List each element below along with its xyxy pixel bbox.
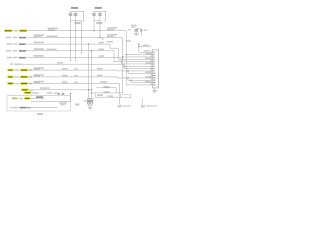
net label row6 <box>10 63 14 64</box>
connector J1 pins <box>150 51 155 86</box>
net name text row6 <box>57 62 63 64</box>
text sub2 <box>143 45 149 47</box>
net label above sheet <box>24 92 32 94</box>
wire bottom rail group2 <box>94 20 100 22</box>
capacitor C5 designator text <box>131 25 137 27</box>
capacitor C5 value text <box>128 29 130 31</box>
wire row10 <box>34 89 92 91</box>
wire vertical net B2 to row2 <box>99 21 101 38</box>
capacitor C1 <box>70 12 72 14</box>
sheet symbol box <box>7 95 70 111</box>
bracket net tie group2 <box>104 12 106 22</box>
wire vertical net B1 to row1 <box>93 21 95 31</box>
wire vertical net C1 row3 to R1 <box>88 44 90 98</box>
capacitor group U note label <box>71 7 78 9</box>
wire sheet row3 <box>31 107 58 109</box>
pin1 net text <box>144 50 150 51</box>
net name text row8 <box>34 74 45 76</box>
net text jog3 <box>108 95 114 97</box>
net name text row4 <box>34 48 45 50</box>
wire row5 <box>26 58 152 64</box>
component pin text <box>97 94 103 96</box>
wire row9 <box>29 84 120 105</box>
net name text row1 <box>48 28 59 30</box>
wire row2 <box>27 38 123 93</box>
net text jog2 <box>104 91 110 93</box>
resistor R1 <box>87 99 90 105</box>
capacitor C4 <box>99 12 101 14</box>
wire branch pin10 <box>127 71 129 73</box>
resistor designator text <box>84 100 86 102</box>
wire branch pin8 <box>123 66 125 68</box>
wire vertical net A2 <box>75 21 77 61</box>
wire jog net2 <box>92 92 123 94</box>
net flag sub2 <box>149 45 151 46</box>
net name text row7 <box>34 67 45 69</box>
sheet net label 1 yellow <box>12 97 19 99</box>
net label row7 yellow <box>7 69 13 71</box>
net name text row10 <box>40 87 50 89</box>
wire stub bottom right annotation <box>142 99 144 105</box>
net label row2 <box>6 37 12 39</box>
text below sheet <box>37 113 43 115</box>
ground under C5 <box>134 32 139 34</box>
wire vertical net C2 row4 to R2 <box>91 51 93 99</box>
capacitor C5 <box>135 28 137 31</box>
wire vertical net A1 <box>70 21 72 61</box>
white background <box>0 0 180 118</box>
wire branch pin14 <box>130 80 132 82</box>
wire row1 branch pin2 <box>126 54 152 56</box>
text bottom left annotation <box>123 105 132 107</box>
net name text row5 <box>34 55 45 57</box>
ground under resistors <box>88 107 92 109</box>
resistor R2 <box>90 99 93 105</box>
net text jog1 <box>104 86 110 88</box>
net label row1 yellow <box>4 30 13 32</box>
net label row5 <box>7 57 12 59</box>
net name text row3 <box>34 42 45 44</box>
value text group1 <box>74 22 80 24</box>
wire vertical net A3 <box>80 21 82 53</box>
wire component right pin <box>94 93 96 97</box>
net label row8 yellow <box>7 76 13 78</box>
wire top rail group2 <box>93 11 106 13</box>
net label row4 <box>6 50 12 52</box>
value text group2 <box>96 22 102 24</box>
net label row10 yellow <box>21 89 29 91</box>
net name text row9 <box>34 81 45 83</box>
net label row9 yellow <box>7 82 13 84</box>
annotation marks <box>47 92 52 94</box>
wire row2 branch pin3 <box>123 56 153 58</box>
power arrow VCC2 <box>138 43 140 45</box>
bracket net tie group1 <box>82 12 84 22</box>
wire jog net3 <box>95 96 119 98</box>
power symbol bottom left <box>118 105 122 108</box>
net name text row2 <box>34 34 45 36</box>
value text under sheet wire2 <box>59 102 66 104</box>
wire row4 <box>26 51 152 62</box>
net label row3 <box>7 43 12 45</box>
ground under connector <box>154 88 156 90</box>
wire branch pin13 <box>127 78 129 80</box>
connector pin name texts <box>146 53 152 54</box>
power arrow above sheet wire <box>69 92 71 94</box>
wire cap5 rail <box>136 28 141 30</box>
wire row8 <box>29 77 152 78</box>
wire sheet row2 to power <box>31 100 71 102</box>
capacitor group label R <box>95 7 102 9</box>
wire row6 <box>23 64 152 66</box>
capacitor C3 <box>93 12 95 14</box>
wire sub2 horizontal <box>139 46 151 48</box>
text bottom right annotation <box>146 105 157 107</box>
wire jog net1 <box>96 88 117 93</box>
power port VCC1 <box>140 29 142 37</box>
connector J1 body <box>152 50 158 88</box>
wire sub2 to pin1 <box>139 47 153 53</box>
wire row3 <box>26 44 152 59</box>
wire row7 <box>29 69 152 72</box>
wire sheet row1 <box>31 97 45 99</box>
wire bottom rail group1 <box>71 20 82 22</box>
wire top rail group1 <box>70 11 84 13</box>
text left of sub2 <box>126 40 131 42</box>
capacitor C2 <box>75 12 77 14</box>
small flag rect <box>120 95 130 98</box>
wire row1 <box>28 31 152 85</box>
wire resistor bottoms to ground <box>89 104 92 106</box>
sheet net label 3 <box>10 107 12 108</box>
power symbol bottom right <box>141 105 145 108</box>
sheet name text <box>36 96 43 98</box>
